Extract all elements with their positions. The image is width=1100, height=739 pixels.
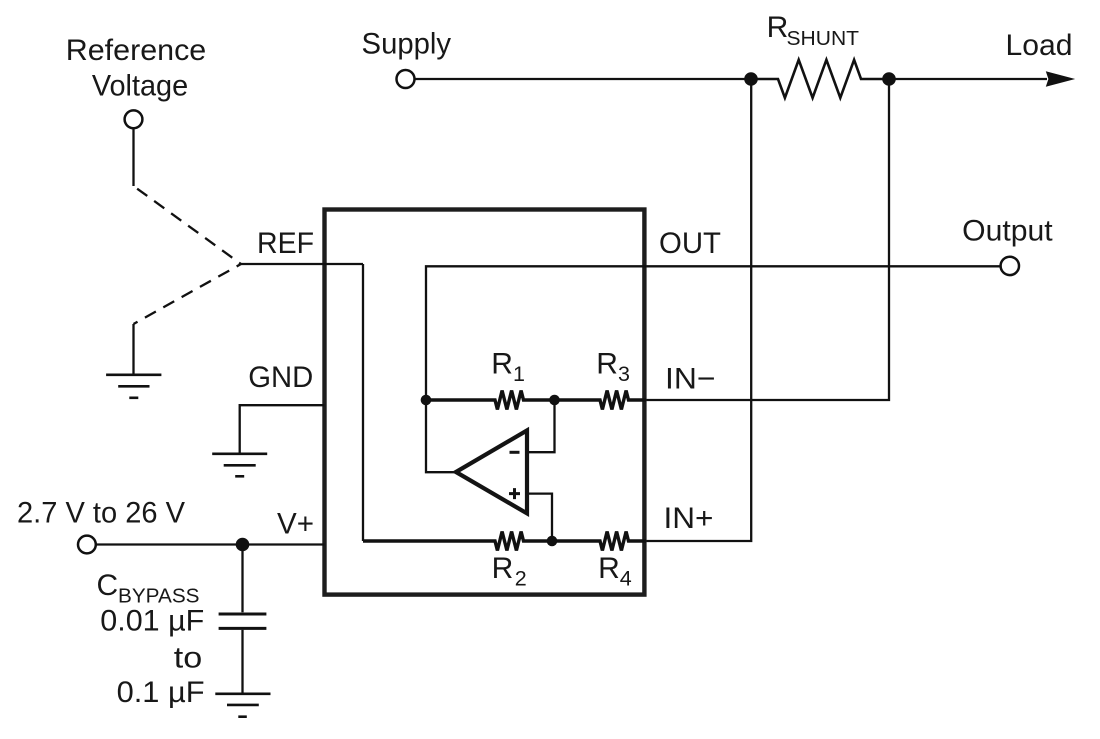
svg-text:SHUNT: SHUNT xyxy=(787,27,860,50)
junction right of RSHUNT xyxy=(882,72,896,86)
ground GND pin xyxy=(212,454,267,477)
wire GND pin to ground xyxy=(240,405,325,453)
op-amp plus sign xyxy=(509,488,520,499)
resistor RSHUNT xyxy=(757,60,883,98)
svg-text:R: R xyxy=(767,11,789,44)
wire right shunt tap down to IN- xyxy=(646,79,889,400)
svg-text:R: R xyxy=(491,348,513,381)
wire V+ pin xyxy=(96,543,324,545)
svg-text:4: 4 xyxy=(620,566,632,590)
wire REF pin xyxy=(241,263,363,265)
op-amp A1 xyxy=(456,430,527,513)
wire REF internal vertical xyxy=(362,264,364,541)
svg-text:Output: Output xyxy=(962,214,1053,247)
svg-text:2: 2 xyxy=(515,566,527,590)
svg-text:Reference: Reference xyxy=(66,34,207,67)
svg-text:GND: GND xyxy=(248,361,313,394)
svg-text:Load: Load xyxy=(1006,29,1073,62)
resistor row R2 R4 xyxy=(363,532,646,551)
svg-text:IN−: IN− xyxy=(665,363,716,396)
ground capacitor xyxy=(215,694,270,717)
svg-text:2.7 V to 26 V: 2.7 V to 26 V xyxy=(17,496,185,529)
svg-text:0.01 µF: 0.01 µF xyxy=(100,604,204,637)
junction R1 R3 xyxy=(549,395,560,406)
svg-text:Supply: Supply xyxy=(362,28,452,61)
wire dashed to REF xyxy=(134,186,242,264)
wire capacitor to ground xyxy=(241,630,243,693)
svg-text:REF: REF xyxy=(257,227,314,260)
svg-text:to: to xyxy=(174,641,203,674)
ground reference xyxy=(106,375,161,398)
svg-text:R: R xyxy=(492,552,514,585)
wire left shunt tap down to IN+ xyxy=(646,79,751,541)
terminal Output xyxy=(1001,257,1019,275)
arrow to Load xyxy=(1046,71,1075,86)
terminal Supply xyxy=(397,70,415,88)
wire non-inverting input tap xyxy=(529,494,552,541)
svg-text:V+: V+ xyxy=(277,508,314,541)
svg-text:3: 3 xyxy=(618,362,630,386)
resistor row R1 R3 xyxy=(426,391,646,410)
svg-text:Voltage: Voltage xyxy=(92,69,188,102)
wire dashed REF to ground xyxy=(134,264,242,324)
terminal supply V+ xyxy=(78,536,96,554)
junction R2 R4 xyxy=(547,536,558,547)
svg-text:IN+: IN+ xyxy=(664,502,714,535)
wire supply rail xyxy=(415,78,1047,80)
svg-text:OUT: OUT xyxy=(659,227,721,260)
wire OUT internal feedback xyxy=(426,266,646,472)
junction R1 left xyxy=(421,395,432,406)
capacitor CBYPASS xyxy=(219,614,267,628)
svg-text:R: R xyxy=(596,348,618,381)
wire to reference ground xyxy=(132,324,134,374)
svg-text:1: 1 xyxy=(513,362,525,386)
IC box U1 xyxy=(325,210,645,595)
svg-text:R: R xyxy=(598,552,620,585)
junction left of RSHUNT xyxy=(744,72,758,86)
op-amp minus sign xyxy=(510,451,520,454)
wire reference voltage vertical xyxy=(132,129,134,186)
svg-text:C: C xyxy=(97,569,119,602)
wire junction to capacitor xyxy=(241,545,243,613)
junction V+ bypass xyxy=(236,538,250,552)
wire inverting input tap xyxy=(529,400,555,452)
terminal Reference Voltage xyxy=(125,110,143,128)
wire OUT to Output xyxy=(646,265,1000,267)
svg-text:0.1 µF: 0.1 µF xyxy=(117,676,205,709)
